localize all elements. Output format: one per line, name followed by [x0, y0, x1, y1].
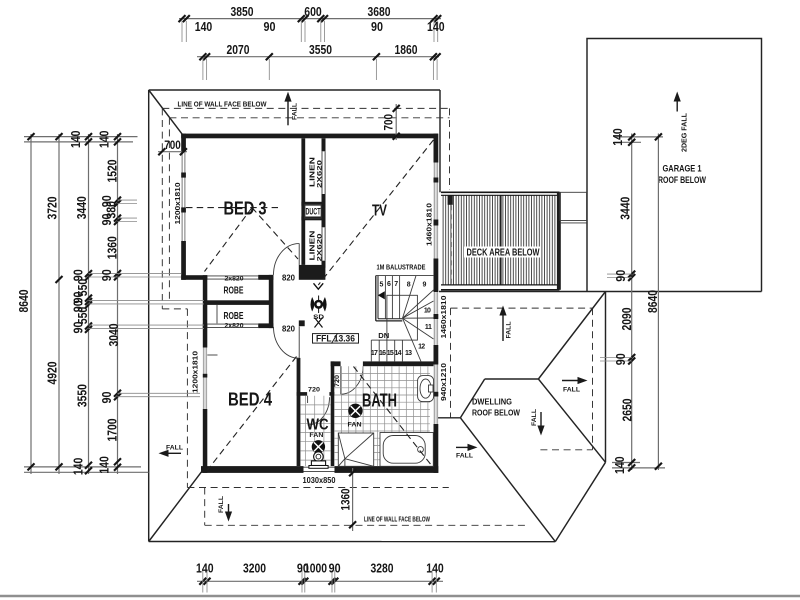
roof hip top-left — [149, 90, 184, 136]
wall face below: left vertical B — [168, 118, 170, 300]
svg-text:140: 140 — [611, 128, 625, 146]
bath floor tile grid — [334, 366, 430, 466]
svg-text:1860: 1860 — [395, 43, 418, 57]
svg-text:1460x1810: 1460x1810 — [425, 203, 434, 246]
deck mid divider — [500, 195, 502, 285]
dwelling wall face below: top dashed — [451, 307, 593, 309]
svg-text:940x1210: 940x1210 — [439, 363, 448, 401]
svg-text:FAN: FAN — [348, 421, 362, 428]
window 1460x1810 (TV) — [434, 163, 438, 259]
svg-text:10: 10 — [424, 307, 431, 314]
svg-text:3720: 3720 — [46, 196, 60, 219]
svg-text:1460x1810: 1460x1810 — [439, 296, 448, 339]
line of wall face below: bottom dashed line — [205, 524, 529, 526]
dim line top 1 — [179, 18, 441, 20]
svg-text:1030x850: 1030x850 — [303, 476, 336, 485]
dwelling roof right edge — [605, 292, 607, 463]
svg-text:140: 140 — [426, 562, 444, 576]
dwelling wall face below: right dashed vertical — [592, 308, 594, 450]
svg-text:BED 4: BED 4 — [228, 390, 272, 410]
svg-text:BATH: BATH — [362, 391, 397, 411]
svg-text:820: 820 — [282, 324, 296, 333]
svg-text:15: 15 — [387, 350, 394, 357]
svg-text:TV: TV — [372, 203, 387, 220]
fall arrow dwelling roof up — [502, 314, 504, 341]
left dim column 4 — [117, 134, 119, 474]
svg-text:140: 140 — [72, 458, 86, 476]
fall arrow dwelling roof down — [540, 412, 542, 428]
page bottom rule — [0, 595, 800, 597]
right dim column 1 — [631, 134, 633, 471]
svg-text:3550: 3550 — [309, 43, 332, 57]
dwelling roof hip right — [538, 379, 605, 462]
svg-text:2X620: 2X620 — [317, 233, 324, 262]
svg-text:BED 3: BED 3 — [224, 199, 267, 219]
svg-text:90: 90 — [100, 269, 114, 281]
tread numbers — [371, 281, 432, 357]
window 1200x1810 BED4 — [203, 348, 207, 410]
ticks col1 — [28, 133, 35, 470]
wall: bottom exterior — [201, 466, 304, 473]
wall: linen right thin lines + jambs — [321, 151, 323, 194]
wall face below: right of deck vertical — [449, 108, 451, 190]
ticks col2 — [56, 133, 63, 470]
door BED4: leaf + swing — [298, 326, 300, 358]
svg-text:720: 720 — [308, 386, 320, 393]
svg-text:2X620: 2X620 — [317, 159, 324, 188]
svg-text:5: 5 — [380, 281, 384, 288]
deck post — [448, 195, 453, 205]
svg-text:3850: 3850 — [231, 5, 254, 19]
svg-text:14: 14 — [395, 350, 402, 357]
fall arrow dwelling roof lower right — [456, 446, 470, 448]
svg-text:1M BALUSTRADE: 1M BALUSTRADE — [377, 262, 426, 271]
svg-text:17: 17 — [371, 350, 378, 357]
dwelling roof top edge / garage bottom — [439, 291, 762, 293]
wc fan — [309, 432, 324, 453]
svg-text:WC: WC — [307, 417, 329, 434]
svg-text:FALL: FALL — [292, 103, 299, 120]
balustrade bottom (double) — [376, 320, 403, 322]
svg-text:DN: DN — [378, 331, 389, 340]
svg-text:LINEN: LINEN — [308, 157, 317, 187]
svg-text:600: 600 — [304, 5, 322, 19]
svg-text:2070: 2070 — [227, 43, 250, 57]
roof hip bottom-left — [149, 472, 202, 542]
svg-text:3440: 3440 — [619, 197, 633, 220]
wc floor tile grid — [300, 396, 330, 466]
fall arrow left — [166, 452, 181, 454]
bath roof diagonal dashed — [354, 367, 433, 467]
dim 700 top-left — [158, 151, 187, 153]
bathtub — [380, 433, 433, 467]
door BED3: leaf + swing — [298, 243, 300, 265]
wall: right exterior — [434, 134, 439, 163]
FFL box — [313, 334, 359, 344]
door bath: leaf + swing — [340, 366, 342, 394]
ticks col4 — [114, 133, 121, 471]
wall: left exterior upper (BED3) — [181, 134, 186, 152]
wall: robe right — [269, 275, 274, 328]
wall face below: lower horizontal — [187, 487, 448, 489]
svg-text:140: 140 — [69, 131, 83, 149]
roof eave top edge — [149, 89, 440, 91]
stair top edge — [376, 275, 434, 277]
2deg fall arrow — [676, 99, 678, 112]
svg-text:90: 90 — [371, 20, 383, 34]
deck boards hatch — [443, 195, 555, 285]
bath fan — [348, 404, 363, 428]
treads upper flight — [384, 276, 386, 319]
svg-text:2x820: 2x820 — [225, 276, 244, 283]
label: deck area below — [464, 247, 541, 258]
svg-text:1360: 1360 — [106, 236, 120, 259]
svg-text:2650: 2650 — [621, 398, 635, 421]
svg-text:1000: 1000 — [304, 562, 327, 576]
dwelling wall face below: lower right dashed — [540, 449, 592, 451]
svg-text:700: 700 — [164, 140, 181, 152]
svg-text:140: 140 — [98, 131, 112, 149]
svg-text:FALL: FALL — [506, 322, 513, 339]
TV roof diagonal dashed — [318, 140, 433, 285]
wall face below: step at left — [162, 308, 187, 310]
svg-text:2090: 2090 — [620, 307, 634, 330]
svg-text:13: 13 — [405, 350, 412, 357]
svg-text:140: 140 — [196, 562, 214, 576]
svg-text:140: 140 — [613, 456, 627, 474]
svg-text:11: 11 — [425, 324, 432, 331]
garage 1 roof outline — [587, 39, 762, 292]
deck right rail — [557, 192, 561, 289]
door WC: leaf + swing — [307, 396, 309, 403]
BED3 hip dashed left — [205, 208, 253, 272]
svg-text:6: 6 — [387, 281, 391, 288]
dwelling roof hip long — [460, 418, 555, 542]
wc toilet — [314, 452, 324, 462]
wall: top exterior — [181, 134, 438, 139]
svg-text:LINE OF WALL FACE BELOW: LINE OF WALL FACE BELOW — [364, 515, 430, 524]
window 1200x1810 BED3 — [181, 152, 185, 241]
balustrade left (double) — [375, 276, 377, 321]
svg-text:ROOF BELOW: ROOF BELOW — [472, 408, 521, 418]
dwelling roof hip mid — [460, 379, 484, 418]
svg-text:1520: 1520 — [105, 159, 119, 182]
witness stubs left — [89, 200, 205, 397]
svg-text:ROOF BELOW: ROOF BELOW — [658, 175, 706, 185]
svg-text:140: 140 — [195, 20, 213, 34]
svg-text:16: 16 — [379, 350, 386, 357]
BED3 ceiling ridge dashed — [186, 207, 278, 209]
dim line top 2 — [197, 56, 439, 58]
svg-text:FFL 13.36: FFL 13.36 — [316, 334, 355, 344]
wall: stair/bath — [331, 361, 341, 366]
line of wall face below: top dashed line B — [169, 117, 449, 119]
left dim column 3 — [88, 134, 90, 474]
window 940x1210 (bath) — [434, 365, 438, 425]
svg-text:LINE OF WALL FACE BELOW: LINE OF WALL FACE BELOW — [178, 99, 268, 108]
right header lines — [614, 136, 663, 138]
svg-text:1360: 1360 — [341, 489, 353, 511]
right dim column 8640 — [657, 134, 659, 471]
window sill marks BED4 — [207, 354, 217, 356]
svg-text:2DEG FALL: 2DEG FALL — [680, 113, 689, 152]
svg-text:DECK AREA BELOW: DECK AREA BELOW — [467, 248, 540, 259]
wall face below: left vertical A — [161, 108, 163, 309]
dwelling wall face below: left dashed vertical — [450, 308, 452, 418]
svg-text:DUCT: DUCT — [306, 207, 321, 218]
dwelling roof clipped corner — [555, 462, 605, 541]
wall: BED4/WC — [297, 358, 301, 466]
svg-text:GARAGE 1: GARAGE 1 — [663, 164, 702, 174]
svg-text:8: 8 — [407, 281, 411, 288]
svg-text:3040: 3040 — [107, 323, 121, 346]
svg-text:1700: 1700 — [106, 418, 120, 441]
bottom dim line — [197, 580, 443, 582]
wall: robe middle — [204, 300, 269, 305]
svg-text:90: 90 — [72, 321, 86, 333]
wall: left exterior lower (BED4) — [203, 275, 208, 347]
svg-text:700: 700 — [384, 114, 396, 131]
roof eave left edge — [148, 90, 150, 542]
left dim column 8640 — [30, 134, 32, 474]
svg-text:7: 7 — [394, 281, 398, 288]
svg-text:FALL: FALL — [456, 453, 473, 460]
svg-text:ROBE: ROBE — [224, 310, 244, 322]
svg-text:FALL: FALL — [563, 387, 580, 394]
dim 700 top-right — [395, 104, 397, 140]
deck edge dashed (grey) — [450, 196, 452, 287]
diagonal end chevron — [314, 283, 324, 289]
svg-text:90: 90 — [264, 20, 276, 34]
smoke detector SD — [311, 296, 326, 328]
svg-text:8640: 8640 — [17, 289, 31, 312]
svg-text:ROBE: ROBE — [224, 284, 244, 296]
fall arrow dwelling roof right — [562, 380, 580, 382]
dim 1360 (wall to roof edge) — [352, 468, 354, 531]
svg-text:1200x1810: 1200x1810 — [173, 183, 182, 225]
left dim column 2 — [58, 134, 60, 474]
deck step — [560, 192, 587, 220]
treads lower flight — [370, 340, 372, 361]
winder fan lines — [403, 276, 417, 319]
svg-text:3280: 3280 — [371, 562, 394, 576]
dwelling roof hip upper — [538, 292, 605, 380]
svg-text:3440: 3440 — [75, 196, 89, 219]
wall: robe top — [181, 275, 207, 280]
svg-text:8640: 8640 — [646, 290, 660, 313]
BED3 hip dashed right — [252, 208, 298, 259]
svg-text:DWELLING: DWELLING — [472, 397, 512, 407]
svg-text:90: 90 — [614, 270, 628, 282]
vanity basin — [418, 376, 434, 402]
svg-text:90: 90 — [100, 213, 114, 225]
svg-text:12: 12 — [418, 344, 425, 351]
svg-text:3680: 3680 — [368, 5, 391, 19]
svg-text:90: 90 — [329, 562, 341, 576]
wall: linen left (BED3 east) — [301, 138, 305, 265]
fall arrow bottom inside dash — [228, 504, 230, 514]
stairwell inner rect — [387, 295, 418, 340]
deck bottom rail — [441, 284, 560, 286]
svg-text:90: 90 — [100, 391, 114, 403]
deck top rail — [441, 191, 560, 193]
robe shelf line — [216, 305, 218, 324]
svg-text:3550: 3550 — [76, 384, 90, 407]
svg-text:LINEN: LINEN — [308, 231, 317, 261]
dwelling roof valley stub — [435, 417, 461, 419]
svg-text:FALL: FALL — [166, 444, 183, 451]
wall face below: bottom-left corner vertical — [204, 488, 206, 526]
roof eave right edge (to deck) — [439, 90, 441, 192]
svg-text:140: 140 — [98, 456, 112, 474]
wall: robe bottom — [203, 323, 208, 328]
ticks col3 — [85, 133, 92, 474]
svg-text:9: 9 — [423, 281, 427, 288]
svg-text:1200x1810: 1200x1810 — [190, 351, 199, 393]
shower tray — [338, 433, 373, 466]
svg-text:2x820: 2x820 — [225, 322, 244, 329]
svg-text:4920: 4920 — [46, 361, 60, 384]
svg-text:90: 90 — [614, 353, 628, 365]
wall: duct box — [301, 202, 325, 206]
wall face below: left lower vertical — [186, 309, 188, 488]
BED4 roof diagonal dashed — [208, 357, 297, 471]
window 1460x1810 (stair) — [434, 292, 438, 345]
svg-text:3200: 3200 — [243, 562, 266, 576]
svg-text:820: 820 — [282, 273, 296, 282]
direction arrow — [378, 291, 385, 299]
svg-text:FALL: FALL — [218, 496, 225, 513]
dwelling roof ridge — [485, 378, 539, 380]
wall: WC top + door jambs — [297, 392, 308, 396]
line of wall face below: top dashed line A — [162, 107, 449, 109]
wall: WC right / bath left — [331, 361, 335, 466]
left header lines — [24, 136, 138, 138]
svg-text:140: 140 — [427, 20, 445, 34]
svg-text:720: 720 — [334, 375, 341, 387]
roof eave bottom edge — [149, 541, 556, 543]
fall arrow top (roof) — [287, 100, 289, 126]
jamb below BED4 door — [299, 320, 305, 326]
svg-text:FALL: FALL — [531, 409, 538, 426]
wall: linen bottom block — [299, 265, 326, 280]
wall: right exterior lower — [434, 290, 439, 292]
